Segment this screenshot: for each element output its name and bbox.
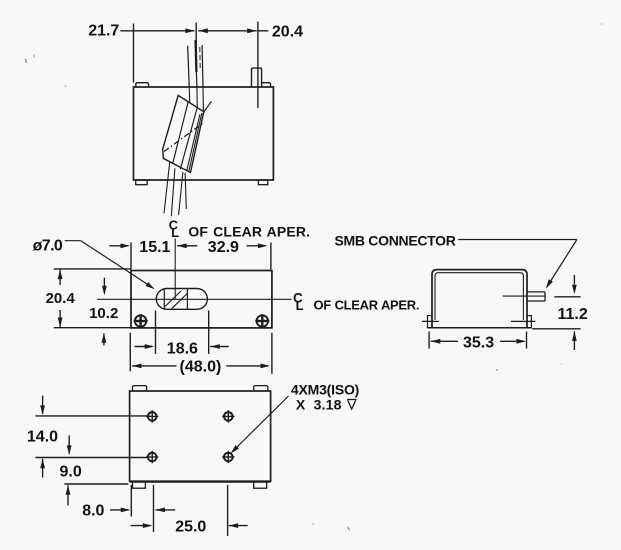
- svg-text:20.4: 20.4: [46, 290, 76, 307]
- svg-text:20.4: 20.4: [272, 23, 303, 40]
- svg-text:10.2: 10.2: [89, 305, 118, 322]
- svg-text:OF CLEAR APER.: OF CLEAR APER.: [188, 223, 310, 239]
- svg-text:OF CLEAR APER.: OF CLEAR APER.: [314, 298, 420, 313]
- svg-text:L: L: [171, 226, 179, 240]
- svg-text:8.0: 8.0: [82, 503, 104, 520]
- svg-text:ø7.0: ø7.0: [33, 238, 63, 255]
- svg-text:15.1: 15.1: [139, 239, 170, 256]
- svg-text:(48.0): (48.0): [180, 359, 222, 376]
- svg-text:35.3: 35.3: [463, 334, 494, 351]
- svg-text:L: L: [296, 298, 304, 313]
- svg-text:X 3.18: X 3.18: [296, 396, 342, 412]
- svg-text:9.0: 9.0: [60, 463, 82, 480]
- svg-text:11.2: 11.2: [558, 306, 588, 323]
- svg-text:32.9: 32.9: [208, 239, 239, 256]
- svg-text:25.0: 25.0: [175, 519, 206, 536]
- svg-text:4XM3(ISO): 4XM3(ISO): [291, 382, 359, 398]
- svg-text:14.0: 14.0: [27, 429, 58, 446]
- svg-text:21.7: 21.7: [88, 23, 119, 40]
- svg-text:SMB CONNECTOR: SMB CONNECTOR: [335, 232, 456, 248]
- svg-text:18.6: 18.6: [167, 340, 198, 357]
